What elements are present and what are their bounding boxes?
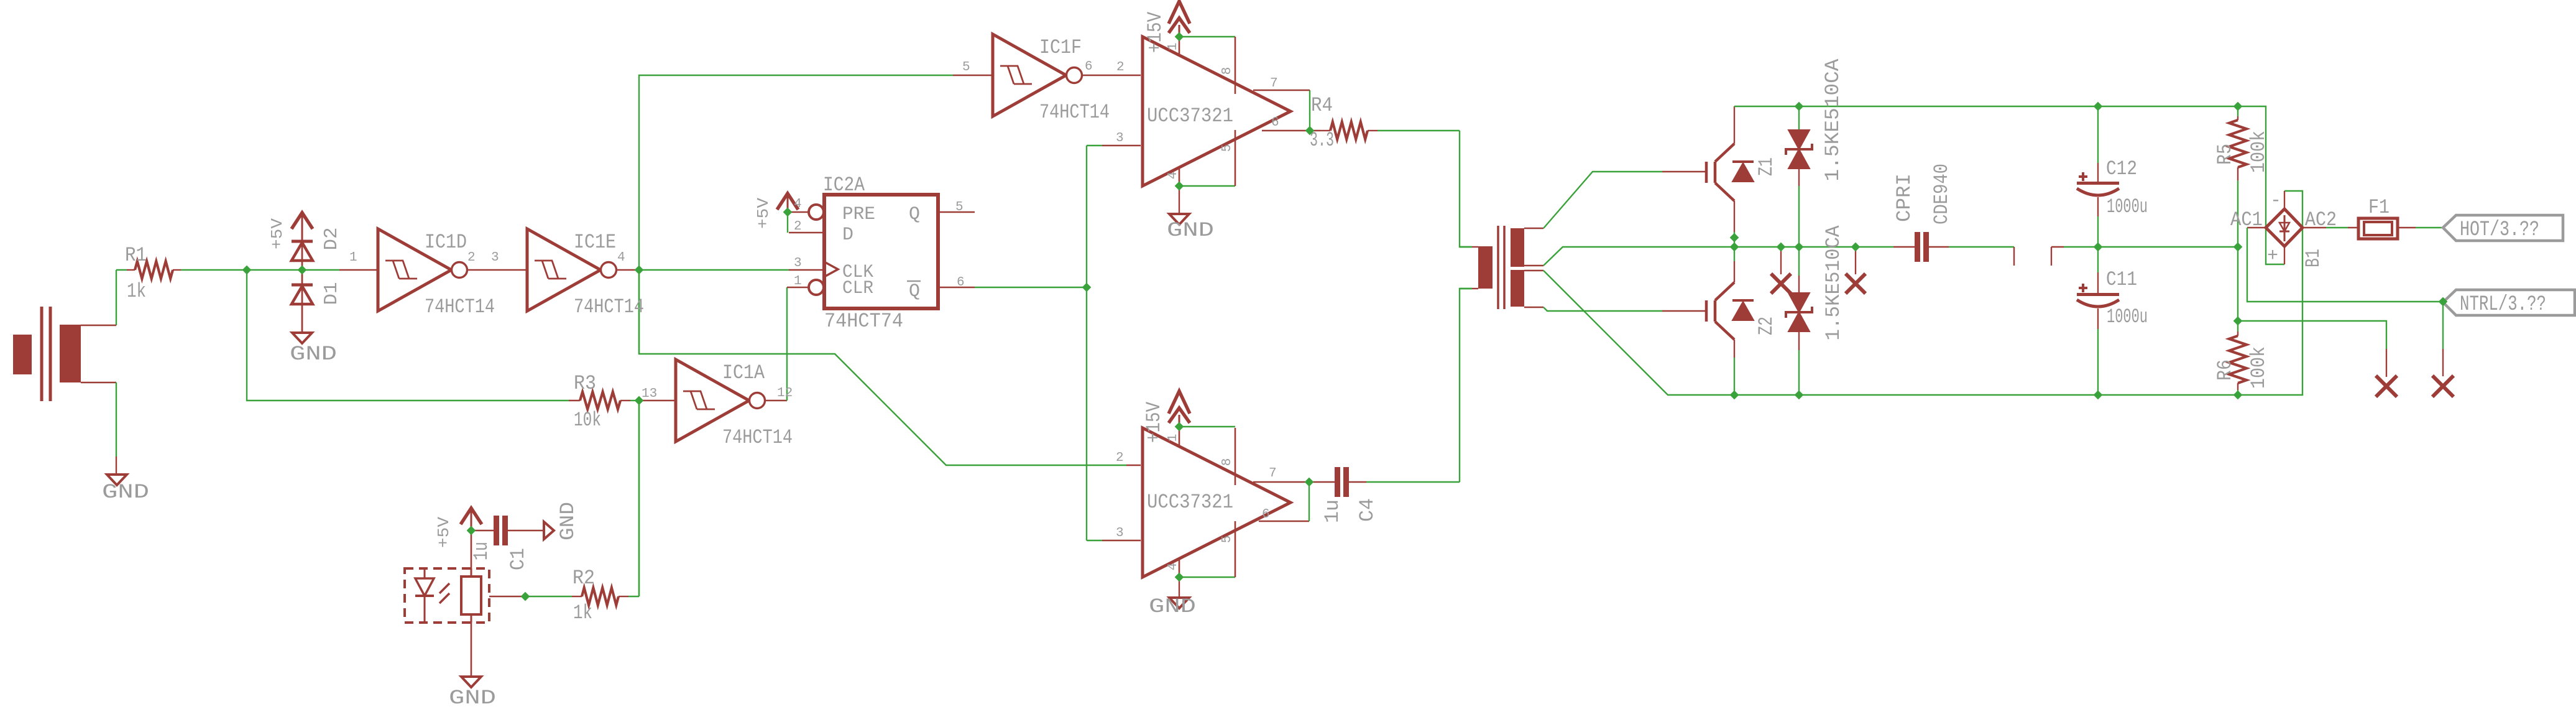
svg-text:F1: F1 <box>2368 196 2390 219</box>
svg-text:C11: C11 <box>2106 268 2137 291</box>
svg-text:CPRI: CPRI <box>1893 174 1916 222</box>
svg-text:CLR: CLR <box>842 278 873 299</box>
svg-text:3: 3 <box>794 256 802 271</box>
svg-text:6: 6 <box>1085 60 1093 74</box>
svg-text:3: 3 <box>1116 526 1124 540</box>
svg-text:+: + <box>2267 246 2278 267</box>
svg-text:4: 4 <box>617 251 625 265</box>
svg-text:1000u: 1000u <box>2107 195 2148 218</box>
svg-text:12: 12 <box>777 386 793 401</box>
svg-text:4: 4 <box>1166 563 1180 571</box>
svg-text:CDE940: CDE940 <box>1930 164 1953 225</box>
svg-text:1: 1 <box>794 274 802 289</box>
svg-text:2: 2 <box>1116 451 1124 465</box>
svg-text:1: 1 <box>1166 434 1180 442</box>
svg-text:GND: GND <box>290 343 337 366</box>
svg-text:HOT/3.??: HOT/3.?? <box>2460 218 2539 242</box>
svg-text:100k: 100k <box>2247 346 2270 389</box>
svg-text:2: 2 <box>1116 60 1125 75</box>
svg-text:D2: D2 <box>321 228 343 251</box>
svg-text:4: 4 <box>1166 172 1180 180</box>
svg-text:NTRL/3.??: NTRL/3.?? <box>2460 293 2546 317</box>
svg-text:D: D <box>842 225 853 246</box>
svg-text:8: 8 <box>1220 458 1235 466</box>
svg-text:1: 1 <box>1166 43 1180 51</box>
svg-text:1u: 1u <box>470 542 493 560</box>
svg-text:Q: Q <box>909 281 920 302</box>
svg-text:R4: R4 <box>1311 94 1333 117</box>
svg-text:IC1E: IC1E <box>574 231 616 254</box>
svg-text:1: 1 <box>349 251 357 265</box>
svg-text:5: 5 <box>955 200 964 215</box>
svg-text:-: - <box>2270 190 2281 211</box>
svg-text:GND: GND <box>449 687 496 709</box>
svg-text:+5V: +5V <box>435 517 453 548</box>
svg-text:R6: R6 <box>2214 359 2237 381</box>
svg-text:+15V: +15V <box>1143 401 1166 443</box>
svg-text:Z2: Z2 <box>1755 317 1778 335</box>
svg-text:5: 5 <box>962 60 970 75</box>
svg-text:IC1A: IC1A <box>722 361 765 384</box>
svg-text:74HCT74: 74HCT74 <box>824 310 903 333</box>
svg-text:Z1: Z1 <box>1755 157 1778 176</box>
svg-text:2: 2 <box>467 251 476 265</box>
svg-text:74HCT14: 74HCT14 <box>574 295 644 318</box>
svg-text:R5: R5 <box>2214 144 2237 165</box>
svg-text:UCC37321: UCC37321 <box>1147 104 1233 127</box>
svg-text:GND: GND <box>556 502 579 540</box>
svg-text:2: 2 <box>794 220 802 234</box>
svg-text:1000u: 1000u <box>2107 305 2148 328</box>
svg-text:GND: GND <box>1167 219 1214 242</box>
svg-text:R2: R2 <box>573 567 595 590</box>
svg-text:7: 7 <box>1270 76 1278 91</box>
svg-text:IC2A: IC2A <box>823 174 865 197</box>
svg-text:3: 3 <box>491 251 499 265</box>
svg-text:C1: C1 <box>507 548 530 570</box>
svg-text:R1: R1 <box>125 244 147 267</box>
svg-text:PRE: PRE <box>842 204 875 225</box>
svg-text:1k: 1k <box>127 280 146 303</box>
svg-text:C12: C12 <box>2106 157 2137 180</box>
svg-text:7: 7 <box>1269 466 1277 481</box>
svg-text:1k: 1k <box>573 601 592 624</box>
svg-text:6: 6 <box>957 276 965 290</box>
svg-text:74HCT14: 74HCT14 <box>1039 101 1110 124</box>
svg-text:+15V: +15V <box>1144 11 1167 53</box>
svg-text:IC1F: IC1F <box>1039 36 1082 59</box>
svg-text:10k: 10k <box>574 409 601 432</box>
svg-text:3.3: 3.3 <box>1310 129 1334 152</box>
svg-text:1.5KE510CA: 1.5KE510CA <box>1821 58 1844 182</box>
svg-text:GND: GND <box>102 481 149 504</box>
svg-text:B1: B1 <box>2302 249 2325 267</box>
svg-text:D1: D1 <box>321 282 343 305</box>
svg-text:3: 3 <box>1116 131 1124 146</box>
svg-text:74HCT14: 74HCT14 <box>425 295 495 318</box>
svg-text:100k: 100k <box>2247 131 2270 173</box>
svg-text:+5V: +5V <box>754 198 773 229</box>
svg-text:Q: Q <box>909 204 920 225</box>
svg-text:6: 6 <box>1271 116 1279 130</box>
svg-text:13: 13 <box>642 387 657 401</box>
svg-text:1.5KE510CA: 1.5KE510CA <box>1822 225 1845 341</box>
svg-text:R3: R3 <box>574 372 596 395</box>
svg-text:+5V: +5V <box>268 218 287 249</box>
svg-text:4: 4 <box>794 197 802 211</box>
svg-text:GND: GND <box>1149 595 1196 618</box>
svg-text:1u: 1u <box>1321 499 1344 523</box>
svg-text:6: 6 <box>1262 507 1270 522</box>
svg-text:5: 5 <box>1220 535 1235 544</box>
svg-text:8: 8 <box>1220 67 1235 75</box>
svg-text:AC2: AC2 <box>2305 208 2337 231</box>
svg-text:5: 5 <box>1220 144 1235 152</box>
svg-text:UCC37321: UCC37321 <box>1147 491 1233 514</box>
svg-text:AC1: AC1 <box>2230 208 2263 231</box>
svg-text:74HCT14: 74HCT14 <box>722 426 793 449</box>
svg-text:C4: C4 <box>1356 498 1379 522</box>
svg-text:IC1D: IC1D <box>425 231 467 254</box>
